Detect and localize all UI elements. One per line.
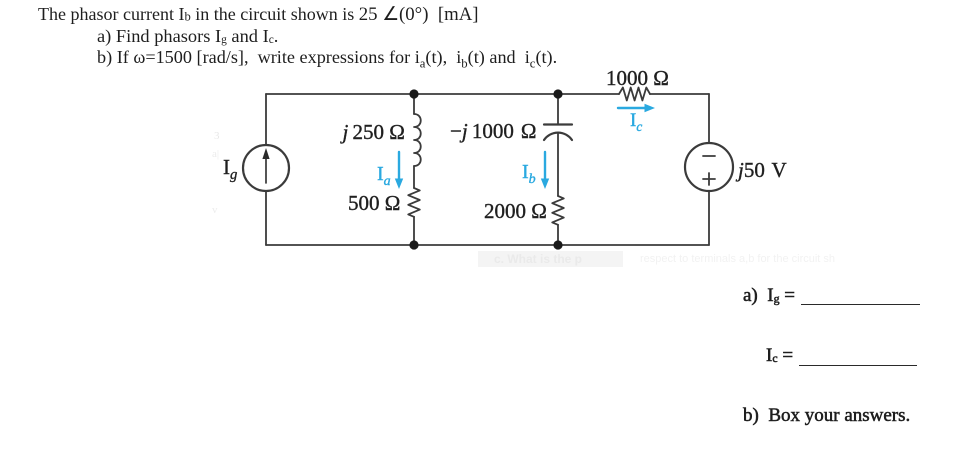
- wire bottom: [266, 244, 709, 246]
- voltage source minus sign: [703, 155, 715, 157]
- label 1000 ohm: [606, 66, 669, 91]
- capacitor -j1000 Ohm bottom plate: [544, 133, 572, 140]
- current source arrow: [265, 157, 267, 183]
- current source Ig circle: [243, 145, 289, 191]
- answer blank line 2: [799, 365, 917, 366]
- label Ib: [522, 161, 536, 184]
- node bottom B junction dot: [553, 240, 562, 249]
- problem statement line 1: [38, 4, 479, 26]
- node top A junction dot: [409, 89, 418, 98]
- resistor 2000 Ohm: [552, 196, 564, 225]
- answer Ic =: [766, 345, 793, 367]
- faint artifact smudge 1: [214, 130, 220, 142]
- voltage source j50V circle: [685, 143, 733, 191]
- capacitor -j1000 Ohm top plate: [544, 123, 572, 125]
- wire right lower: [708, 191, 710, 245]
- faint artifact box: [478, 251, 623, 267]
- wire branch A upper: [413, 94, 415, 114]
- label Ig: [223, 155, 237, 180]
- label Ia: [377, 163, 391, 186]
- wire top right segment: [650, 93, 709, 95]
- wire top left segment: [266, 93, 619, 95]
- answer b) box your answers: [743, 405, 910, 427]
- resistor 1000 Ohm: [619, 88, 650, 101]
- wire branch A lower: [413, 217, 415, 245]
- label j250 ohm: [343, 120, 405, 145]
- current arrow Ic: [618, 107, 646, 109]
- wire left upper: [265, 94, 267, 145]
- wire branch B upper: [557, 94, 559, 124]
- answer blank line 1: [801, 304, 920, 305]
- faint artifact smudge 2: [212, 148, 219, 160]
- current arrow Ia: [398, 152, 400, 181]
- wire branch B lower: [557, 225, 559, 245]
- node bottom A junction dot: [409, 240, 418, 249]
- voltage source plus sign: [703, 178, 715, 180]
- faint artifact text 2: [640, 253, 835, 265]
- faint artifact smudge 3: [212, 204, 218, 216]
- label Ic: [630, 110, 642, 132]
- faint artifact text 1: [494, 252, 582, 266]
- current arrow Ib: [544, 152, 546, 181]
- wire branch A middle: [413, 166, 415, 188]
- resistor 500 Ohm: [408, 188, 420, 217]
- inductor j250 Ohm: [414, 114, 421, 166]
- node top B junction dot: [553, 89, 562, 98]
- wire right upper: [708, 94, 710, 143]
- label j50V: [738, 158, 787, 183]
- label 500 ohm: [348, 191, 400, 216]
- wire branch B middle: [557, 133, 559, 196]
- problem statement line 3: [97, 47, 557, 68]
- wire left lower: [265, 191, 267, 245]
- answer a) Ig =: [743, 285, 795, 307]
- problem statement line 2: [97, 26, 278, 47]
- label 2000 ohm: [484, 199, 547, 224]
- label -j1000 ohm: [450, 119, 537, 144]
